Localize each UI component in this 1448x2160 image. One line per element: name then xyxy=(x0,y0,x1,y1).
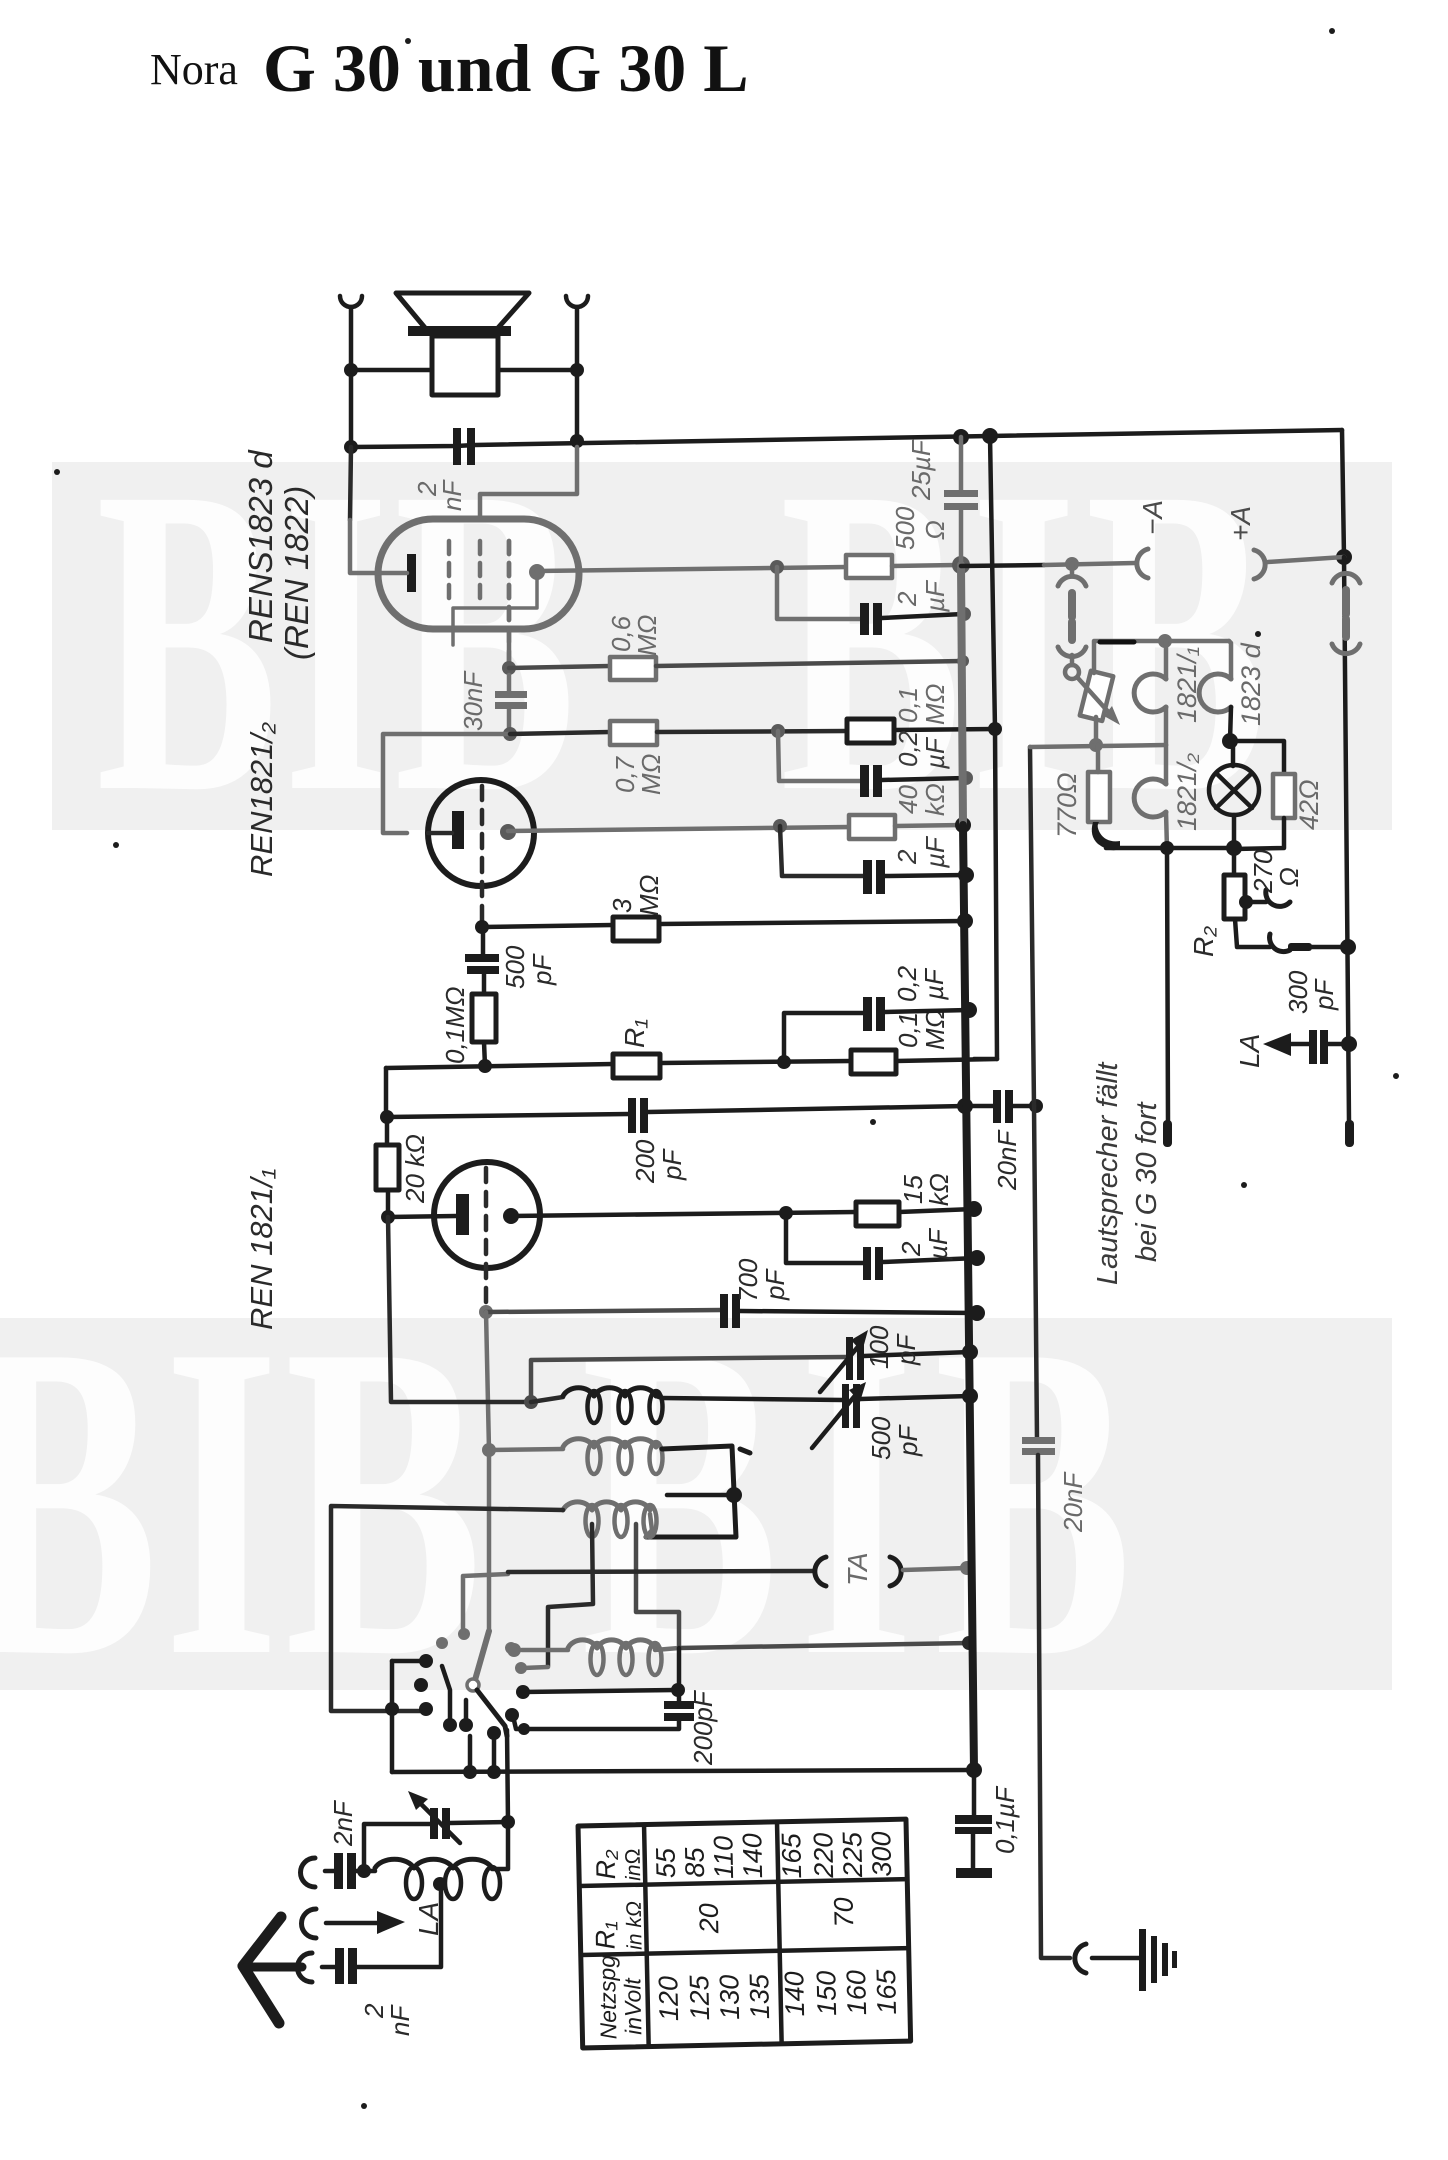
capacitor 700pF xyxy=(720,1294,740,1328)
wire 0,1M no2 right xyxy=(896,1059,997,1061)
node 200pF row left xyxy=(380,1110,394,1124)
wire left loop vertical xyxy=(384,1068,389,1117)
node grid-L2 xyxy=(482,1443,496,1457)
node coil tap xyxy=(433,1877,447,1891)
wire 20nF branch xyxy=(965,1104,995,1109)
node 20nF no1 xyxy=(1029,1099,1043,1113)
wire U3 anode row xyxy=(511,1212,856,1216)
node 500pF bus xyxy=(962,1388,978,1404)
inductor L3 xyxy=(563,1502,650,1510)
node -A link xyxy=(1065,557,1079,571)
tube U2 cathode lead xyxy=(428,831,452,836)
filament 1821/2 xyxy=(1134,779,1166,817)
resistor 500 Ohm xyxy=(846,555,957,578)
svg-text:R₁: R₁ xyxy=(590,1921,621,1950)
node 0,6M bus xyxy=(957,655,969,667)
wire ant cap to tap xyxy=(357,1887,441,1967)
svg-text:2: 2 xyxy=(896,1241,926,1257)
svg-text:(REN 1822): (REN 1822) xyxy=(278,486,315,660)
wire row 0,6M xyxy=(509,666,610,668)
wire L4 left xyxy=(522,1648,568,1653)
arrow 100pF xyxy=(820,1342,862,1392)
node 2uF no1 bus xyxy=(957,607,971,621)
wire 25uF xyxy=(959,437,964,565)
wire elbow to 2uF no2 xyxy=(780,826,863,876)
switch contact b xyxy=(458,1628,470,1640)
wire speaker right xyxy=(498,368,577,373)
svg-text:500: 500 xyxy=(890,506,920,550)
wire 1823 top link xyxy=(1229,641,1231,679)
node top V2 xyxy=(982,428,998,444)
node 30nF bottom xyxy=(503,727,517,741)
svg-text:160: 160 xyxy=(841,1970,872,2016)
wire elbow to 2uF no3 xyxy=(786,1213,863,1263)
rheostat P1 xyxy=(1080,671,1113,721)
svg-text:770Ω: 770Ω xyxy=(1052,772,1082,838)
svg-text:110: 110 xyxy=(708,1836,739,1880)
wire +A to bus xyxy=(1268,557,1344,562)
wire link stub xyxy=(1070,564,1075,576)
svg-text:MΩ: MΩ xyxy=(920,684,950,725)
tube U3 anode node xyxy=(503,1208,519,1224)
terminal TA left xyxy=(815,1557,826,1586)
tube U1 RENS1823d envelope xyxy=(378,519,579,629)
-A pin blob xyxy=(1163,1120,1172,1147)
svg-text:inΩ: inΩ xyxy=(622,1848,646,1881)
capacitor 20nF no1 xyxy=(993,1090,1013,1123)
wire ground branch lower xyxy=(1038,1455,1070,1958)
svg-text:40: 40 xyxy=(893,785,923,814)
wire L4 right to TA bus xyxy=(655,1648,679,1650)
svg-text:0,1: 0,1 xyxy=(893,687,923,723)
switch contact f xyxy=(414,1678,428,1692)
svg-text:MΩ: MΩ xyxy=(632,615,662,656)
capacitor 500pF variable xyxy=(842,1384,860,1428)
svg-text:pF: pF xyxy=(527,953,557,986)
wire row 700pF xyxy=(486,1310,722,1312)
svg-text:Ω: Ω xyxy=(1274,867,1304,887)
pot top circle xyxy=(1065,665,1079,679)
wire 2uF no3 right xyxy=(883,1258,977,1262)
capacitor 2uF no3 xyxy=(863,1247,883,1280)
wire 0,6M right xyxy=(656,661,963,666)
speaker terminal left xyxy=(340,296,362,447)
+A pin blob xyxy=(1345,1120,1354,1147)
svg-text:220: 220 xyxy=(808,1832,839,1879)
svg-text:in kΩ: in kΩ xyxy=(623,1901,647,1950)
tube U1 cathode xyxy=(407,554,416,592)
svg-text:bei G 30 fort: bei G 30 fort xyxy=(1131,1100,1163,1262)
svg-text:inVolt: inVolt xyxy=(619,1976,646,2035)
node 300pF bus xyxy=(1341,1036,1357,1052)
tube U3 REN1821/1 envelope xyxy=(434,1162,540,1268)
resistor 0,1M vertical xyxy=(472,994,496,1042)
node U3 row left xyxy=(381,1210,395,1224)
wire L1 entry xyxy=(531,1397,563,1402)
terminal -A xyxy=(1137,549,1148,578)
capacitor 2nF top-left xyxy=(334,1853,356,1889)
terminal TA right xyxy=(890,1557,901,1586)
node sw mid xyxy=(487,1726,501,1740)
svg-text:165: 165 xyxy=(871,1968,902,2015)
svg-text:20nF: 20nF xyxy=(992,1129,1022,1191)
wire left stub xyxy=(390,1661,395,1772)
resistor 770 Ohm xyxy=(1088,772,1110,822)
svg-text:TA: TA xyxy=(842,1552,873,1586)
wire ground branch upper xyxy=(1030,747,1034,1106)
wire heater bottom row xyxy=(1106,846,1234,851)
speaker terminal right xyxy=(566,296,588,441)
node L4 left contact xyxy=(507,1643,521,1657)
svg-text:2: 2 xyxy=(892,591,922,607)
tube U3 cathode xyxy=(456,1194,469,1235)
node 200pF bus xyxy=(957,1098,973,1114)
wire speaker left xyxy=(351,368,432,373)
tube U1 cathode lead xyxy=(381,571,407,576)
svg-text:G 30 und G 30 L: G 30 und G 30 L xyxy=(263,30,749,106)
capacitor 30nF xyxy=(495,691,527,709)
svg-text:µF: µF xyxy=(920,736,950,770)
node heater bottom xyxy=(1160,841,1174,855)
bottom bus xyxy=(392,1770,974,1772)
capacitor 200pF band xyxy=(664,1701,694,1721)
svg-text:Nora: Nora xyxy=(150,45,238,94)
tube U3 cathode lead xyxy=(388,1216,456,1217)
inductor ant coil xyxy=(375,1859,492,1868)
svg-text:500: 500 xyxy=(500,945,530,989)
node lamp top xyxy=(1222,733,1238,749)
svg-text:0,2: 0,2 xyxy=(893,730,923,767)
wire L1 right to 500pF xyxy=(662,1398,843,1400)
svg-text:500: 500 xyxy=(866,1416,896,1460)
wire L3 tap 2 xyxy=(636,1524,679,1648)
wire grid cap xyxy=(480,447,577,520)
wire 3M right xyxy=(659,921,965,924)
resistor 0,1M no2 xyxy=(851,1050,896,1074)
svg-text:REN 1821/₁: REN 1821/₁ xyxy=(244,1168,279,1330)
svg-text:42Ω: 42Ω xyxy=(1294,779,1324,830)
svg-text:nF: nF xyxy=(437,479,467,511)
inductor L2 xyxy=(563,1439,656,1447)
node N1 xyxy=(952,556,970,574)
svg-text:REN1821/₂: REN1821/₂ xyxy=(244,722,279,877)
node U3 grid bottom xyxy=(479,1305,493,1319)
svg-text:3: 3 xyxy=(607,898,637,913)
wire 200pF top link xyxy=(523,1690,676,1692)
node bottom bus right xyxy=(966,1762,982,1778)
resistor 42 Ohm xyxy=(1230,741,1284,774)
wire L2 left xyxy=(489,1449,563,1450)
wire contact ef stub xyxy=(392,1659,426,1664)
switch contact a xyxy=(436,1637,448,1649)
wire 0,2uF no2 right xyxy=(885,1010,969,1012)
svg-text:140: 140 xyxy=(779,1971,810,2017)
node top 2 xyxy=(570,434,584,448)
capacitor 300pF xyxy=(1327,1042,1349,1047)
node 700pF bus xyxy=(969,1305,985,1321)
svg-text:225: 225 xyxy=(837,1831,868,1879)
loudspeaker xyxy=(396,293,529,395)
switch contact j xyxy=(505,1708,519,1722)
svg-text:30nF: 30nF xyxy=(458,670,488,731)
tube U2 grid dashes xyxy=(480,786,485,924)
node anode row elbow xyxy=(770,560,784,574)
wire coil left stub xyxy=(364,1869,375,1874)
wire -A row xyxy=(961,565,1044,566)
wire TA horizontal xyxy=(508,1571,814,1572)
wire L3 left loop xyxy=(331,1506,563,1711)
svg-text:150: 150 xyxy=(811,1970,842,2016)
switch contact c xyxy=(505,1642,517,1654)
capacitor var antenna xyxy=(430,1808,450,1839)
wire 0,1M right to V2 xyxy=(894,729,995,730)
node top left xyxy=(344,440,358,454)
resistor 20k vertical xyxy=(376,1145,399,1190)
node 2uF no3 elbow xyxy=(779,1206,793,1220)
wire L3 top link xyxy=(667,1493,734,1498)
tube U1 internal bottom link xyxy=(453,577,537,645)
wire L2 right loop xyxy=(646,1446,736,1537)
wire switch to antenna vertical xyxy=(507,1730,508,1822)
arrow to LA xyxy=(1263,1033,1291,1056)
terminal 270 cup xyxy=(1266,890,1290,906)
capacitor 2uF no1 xyxy=(860,603,882,635)
svg-text:70: 70 xyxy=(829,1897,860,1928)
wire contact b feed xyxy=(463,1574,508,1634)
wire TA right xyxy=(903,1568,967,1570)
node 2uF no3 bus xyxy=(969,1250,985,1266)
node 40k elbow xyxy=(773,819,787,833)
svg-text:20nF: 20nF xyxy=(1058,1471,1088,1533)
node R2 tap xyxy=(1239,895,1253,909)
wire U1 left xyxy=(350,447,351,520)
wire row 200pF xyxy=(387,1114,629,1117)
svg-text:R₁: R₁ xyxy=(619,1019,650,1048)
node lamp bottom xyxy=(1226,840,1242,856)
antenna xyxy=(243,1917,302,2023)
svg-text:pF: pF xyxy=(891,1333,921,1366)
node 40k bus xyxy=(955,817,971,833)
wire U2 anode row xyxy=(508,827,849,831)
svg-text:20: 20 xyxy=(694,1903,725,1935)
svg-text:200: 200 xyxy=(630,1139,660,1184)
svg-text:0,1: 0,1 xyxy=(893,1012,923,1048)
svg-text:2: 2 xyxy=(892,849,922,865)
resistor 0,7M xyxy=(610,721,657,745)
capacitor 2nF top xyxy=(453,428,475,465)
capacitor 20nF no2 xyxy=(1022,1437,1055,1455)
node TA bus xyxy=(960,1561,974,1575)
resistor R1 xyxy=(613,1054,660,1078)
svg-text:Ω: Ω xyxy=(920,520,950,540)
svg-text:pF: pF xyxy=(760,1268,790,1301)
svg-text:pF: pF xyxy=(657,1148,687,1181)
wire row R1 xyxy=(386,1064,613,1068)
svg-text:165: 165 xyxy=(776,1832,807,1879)
node bus R2 xyxy=(1340,939,1356,955)
ground xyxy=(1139,1929,1177,1991)
solder blob xyxy=(1092,822,1120,850)
wire 200pF right xyxy=(648,1106,965,1112)
wire row 0,7M xyxy=(510,732,610,734)
svg-text:µF: µF xyxy=(923,1227,953,1261)
wire coil right xyxy=(492,1822,508,1869)
svg-text:300: 300 xyxy=(866,1831,897,1877)
wire -A pin xyxy=(1167,849,1168,1122)
tube U1 anode node xyxy=(529,564,545,580)
switch pivot xyxy=(467,1679,479,1691)
terminal R2 bottom cup xyxy=(1270,934,1290,952)
svg-text:µF: µF xyxy=(920,835,950,869)
svg-text:55: 55 xyxy=(651,1847,682,1879)
wire 0,2uF no1 right xyxy=(882,778,966,780)
wire 100pF right xyxy=(864,1352,970,1356)
wire 200pF vertical xyxy=(677,1648,682,1704)
svg-text:+A: +A xyxy=(1225,506,1256,541)
wire right bus top xyxy=(1342,430,1344,557)
node ant coil left xyxy=(357,1864,371,1878)
wire 500pF right xyxy=(860,1396,970,1399)
resistor 15k xyxy=(856,1202,899,1226)
node ant right xyxy=(501,1815,515,1829)
svg-text:0,1MΩ: 0,1MΩ xyxy=(440,986,470,1064)
arrow var antenna xyxy=(420,1803,460,1843)
wire pot to heater row xyxy=(1094,717,1099,745)
capacitor 2uF no2 xyxy=(863,860,885,894)
switch arm lower xyxy=(477,1690,507,1736)
node sw bottom 1 xyxy=(463,1765,477,1779)
svg-text:R₂: R₂ xyxy=(1188,926,1219,957)
main bus black lower xyxy=(963,825,974,1770)
svg-text:135: 135 xyxy=(744,1973,775,2020)
wire 200pF bottom xyxy=(513,1716,679,1729)
wire grid loop left xyxy=(383,734,510,833)
svg-text:120: 120 xyxy=(653,1976,684,2022)
node L1 left xyxy=(524,1395,538,1409)
capacitor 2nF bottom xyxy=(335,1948,357,1984)
node top bus xyxy=(953,429,969,445)
switch contact d xyxy=(515,1662,527,1674)
wire grid line down xyxy=(486,1312,489,1450)
node 0,2uF no2 bus xyxy=(961,1002,977,1018)
filament 1821/1 xyxy=(1134,674,1166,712)
node speaker right xyxy=(570,363,584,377)
capacitor 100pF variable xyxy=(846,1337,864,1380)
wire 0,7M to 0,1M xyxy=(657,731,847,732)
svg-text:1823 d: 1823 d xyxy=(1236,642,1266,726)
wire grid line to switch xyxy=(487,1450,492,1631)
svg-text:100: 100 xyxy=(864,1325,894,1369)
tick mark xyxy=(740,1449,750,1453)
wire left loop down xyxy=(388,1217,531,1402)
wire elbow to 0,2uF no2 xyxy=(784,1013,863,1062)
svg-text:1821/₂: 1821/₂ xyxy=(1172,752,1202,831)
wire 15k right xyxy=(899,1209,974,1212)
svg-text:kΩ: kΩ xyxy=(920,783,950,816)
node 0,1M elbow xyxy=(771,724,785,738)
node L2 loop xyxy=(726,1487,742,1503)
terminal LA mid xyxy=(302,1909,317,1938)
svg-text:2nF: 2nF xyxy=(328,1799,358,1847)
svg-text:−A: −A xyxy=(1137,500,1168,535)
svg-text:nF: nF xyxy=(385,2004,415,2036)
wire U1 anode xyxy=(537,567,846,571)
node heater row xyxy=(1089,738,1103,752)
terminal ant bottom xyxy=(298,1953,313,1982)
svg-text:MΩ: MΩ xyxy=(634,875,664,916)
svg-text:140: 140 xyxy=(737,1833,768,1879)
svg-text:200pF: 200pF xyxy=(688,1689,718,1766)
capacitor 0,1uF xyxy=(972,1770,977,1817)
svg-text:0,1µF: 0,1µF xyxy=(990,1785,1020,1854)
tube U1 grid dash 3 xyxy=(507,541,512,628)
rheostat arm xyxy=(1077,677,1112,716)
svg-text:MΩ: MΩ xyxy=(636,754,666,795)
node 0,2uF no1 bus xyxy=(959,771,973,785)
wire heater row xyxy=(1030,745,1166,747)
capacitor 200pF xyxy=(628,1098,648,1133)
wire row 3M xyxy=(482,925,613,927)
wire 700pF right xyxy=(740,1311,977,1313)
wire V2 vertical xyxy=(990,436,997,1059)
wire 20nF no1 right xyxy=(1013,1104,1036,1109)
node 30nF top xyxy=(502,661,516,675)
svg-text:pF: pF xyxy=(893,1424,923,1457)
wire 2uF no1 right xyxy=(882,614,963,618)
wire var cap right xyxy=(450,1822,508,1823)
tube U2 anode node xyxy=(500,824,516,840)
terminal ant top xyxy=(301,1858,316,1887)
wire sw bottom 2 xyxy=(492,1733,497,1772)
svg-text:20 kΩ: 20 kΩ xyxy=(400,1134,430,1204)
node 15k bus xyxy=(966,1201,982,1217)
svg-text:700: 700 xyxy=(733,1258,763,1302)
battery link right xyxy=(1332,573,1360,653)
inductor L1 xyxy=(563,1388,656,1396)
node left loop bottom xyxy=(385,1702,399,1716)
tube U2 cathode xyxy=(452,811,464,849)
wire link to bus xyxy=(1312,945,1348,950)
capacitor 500pF xyxy=(465,954,499,974)
node 0,1M V2 xyxy=(988,722,1002,736)
wire elbow to 2uF no1 xyxy=(777,567,860,619)
wire sw down 2 xyxy=(464,1700,469,1725)
resistor 3M xyxy=(613,917,659,941)
tube U2 REN1821/2 envelope xyxy=(428,780,534,886)
wire 40k right xyxy=(895,825,963,826)
wire 100pF row left xyxy=(531,1357,846,1402)
resistor 0,6M xyxy=(610,657,656,680)
node R1 row left xyxy=(478,1059,492,1073)
node U2 grid bottom xyxy=(475,920,489,934)
wire pot top to heater top xyxy=(1094,641,1229,673)
svg-text:R₂: R₂ xyxy=(591,1849,622,1880)
svg-text:pF: pF xyxy=(1309,978,1339,1011)
svg-text:LA: LA xyxy=(413,1902,444,1936)
resistor R2 xyxy=(1232,848,1237,875)
wire elbow to 0,2uF no1 xyxy=(778,731,860,781)
switch contact i xyxy=(459,1718,473,1732)
resistor 0,1M no1 xyxy=(847,719,894,743)
svg-text:LA: LA xyxy=(1234,1034,1265,1068)
capacitor 25uF xyxy=(944,490,978,510)
top main wire xyxy=(351,430,1342,447)
svg-text:125: 125 xyxy=(684,1974,715,2021)
capacitor 0,2uF no1 xyxy=(860,765,882,797)
svg-text:µF: µF xyxy=(920,579,950,613)
wire var cap left xyxy=(364,1824,430,1871)
wire sw bottom 1 xyxy=(468,1736,473,1772)
